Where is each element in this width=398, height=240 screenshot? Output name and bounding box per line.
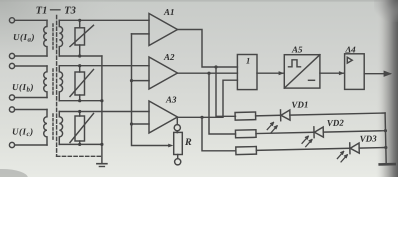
terminal circle chB top: [9, 63, 14, 68]
svg-text:A5: A5: [291, 45, 303, 55]
right bus: [385, 113, 386, 163]
wire A2 output to block 1: [178, 72, 238, 74]
top-left haze: [0, 0, 120, 70]
wire chC top primary: [15, 109, 47, 111]
wire chA top secondary to A1: [59, 19, 149, 21]
transformer T3 secondary winding: [59, 112, 62, 145]
wire chA bottom primary: [15, 55, 47, 57]
wire A1 output to block 1: [178, 30, 238, 68]
potentiometer R bottom terminal: [177, 155, 179, 159]
wire chA bottom secondary to bus: [59, 55, 102, 57]
svg-text:A2: A2: [163, 52, 175, 62]
dashed enclosure bottom edge: [57, 155, 102, 157]
svg-text:T3: T3: [64, 6, 76, 17]
ground right: [380, 163, 395, 166]
svg-text:VD3: VD3: [360, 133, 378, 143]
op-amp A1: [149, 14, 178, 46]
varistor RU2: [75, 72, 85, 95]
wire row3 to VD3: [256, 148, 349, 150]
feedback bus: [132, 34, 170, 146]
wire chB top secondary to A2: [59, 65, 149, 67]
converter A5: [284, 55, 320, 88]
A5 pulse glyph: [289, 60, 301, 67]
block 1 (OR): [237, 55, 257, 90]
A5 minus glyph: [309, 79, 315, 81]
wire A2 lower input: [132, 80, 150, 82]
svg-text:1: 1: [246, 56, 250, 66]
wire tap A2 to row2: [209, 73, 236, 134]
svg-text:VD1: VD1: [291, 99, 308, 109]
amplifier block A4: [345, 54, 365, 90]
transformer T1 primary winding: [44, 20, 47, 56]
VD2 light arrows: [302, 136, 309, 143]
wire chB bottom secondary to bus: [59, 100, 102, 102]
transformer T1 secondary winding: [59, 20, 62, 56]
wire chB top primary: [15, 65, 47, 67]
svg-text:R: R: [184, 137, 192, 148]
top-right dark corner: [374, 0, 398, 22]
svg-text:T1: T1: [36, 6, 48, 17]
terminal circle chC top: [9, 107, 14, 112]
varistor RU1: [75, 28, 85, 45]
ground bus of transformer box: [101, 56, 103, 164]
arrow into R wiper: [168, 144, 173, 148]
transformer T2 primary winding: [44, 66, 47, 98]
transformer T2 secondary winding: [59, 66, 62, 101]
terminal circle chA top: [9, 18, 14, 23]
wire block1 to A5 with arrow: [257, 72, 284, 74]
terminal circle chB bottom: [9, 95, 14, 100]
svg-text:U(Ia): U(Ia): [13, 32, 35, 44]
resistor row1: [235, 112, 256, 120]
wire VD1 to right bus: [290, 113, 385, 115]
bottom-left corner smudge: [0, 169, 28, 187]
wire A3 output to block 1: [178, 80, 238, 117]
transformer T3 core dashes: [52, 114, 54, 140]
LED VD2: [313, 127, 315, 138]
top edge faint streak: [0, 0, 398, 2]
svg-text:U(Ib): U(Ib): [12, 82, 34, 94]
wire VD2 to right bus: [323, 131, 385, 132]
transformer T2 core dashes: [52, 69, 54, 95]
resistor row2: [235, 130, 256, 138]
paper background: [0, 0, 398, 177]
wire row2 to VD2: [256, 132, 314, 133]
transformer T1 core dashes: [52, 24, 54, 49]
wire A1 lower input: [132, 33, 150, 35]
wire tap A1 to row1: [216, 67, 236, 116]
op-amp A2: [149, 57, 178, 89]
LED VD1: [279, 110, 281, 121]
transformer T3 primary winding: [44, 110, 47, 146]
wire row1 to VD1: [256, 114, 281, 117]
wire chC bottom secondary to bus: [59, 143, 102, 145]
resistor row3: [236, 147, 257, 155]
wire A3 lower input: [132, 123, 150, 125]
op-amp A3: [149, 101, 178, 133]
terminal circle chC bottom: [9, 142, 14, 147]
svg-text:A3: A3: [165, 95, 177, 105]
VD3 light arrows: [337, 151, 344, 158]
wire chC bottom primary: [15, 144, 47, 146]
wire tap A3 to row3: [202, 117, 236, 151]
svg-text:VD2: VD2: [327, 118, 345, 128]
output arrow: [364, 73, 390, 75]
dashed enclosure left edge: [56, 16, 58, 157]
LED VD3: [349, 143, 351, 154]
right shadow band: [376, 0, 398, 177]
terminal circle chA bottom: [9, 53, 14, 58]
potentiometer R top terminal: [174, 125, 180, 131]
svg-text:A1: A1: [163, 7, 175, 17]
potentiometer R body: [174, 132, 183, 154]
wire chA top primary: [15, 19, 47, 21]
svg-text:U(Ic): U(Ic): [12, 127, 34, 139]
wire A5 to A4 with arrow: [320, 72, 344, 74]
svg-text:Δ4: Δ4: [345, 45, 357, 55]
wire chC top secondary to A3: [59, 111, 149, 113]
VD1 light arrows: [267, 122, 274, 129]
wire chB bottom primary: [15, 97, 47, 99]
wire VD3 to right bus: [359, 147, 386, 150]
varistor RU3: [75, 116, 85, 141]
ground left: [97, 163, 107, 165]
